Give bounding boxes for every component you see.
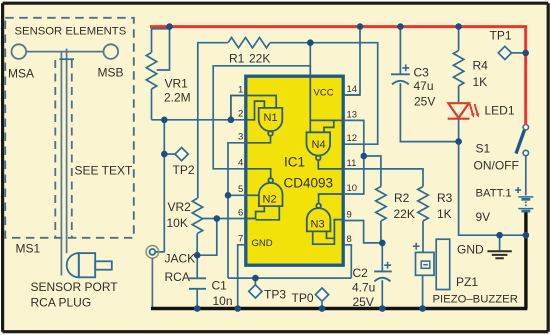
wire node bus horizontal (pin3-pin5-pin8) (228, 277, 351, 279)
switch S1 top contact (523, 125, 528, 130)
wire R4 to LED anode (458, 86, 460, 103)
wire N2 output to pin 4 (246, 169, 271, 178)
svg-text:MSB: MSB (98, 66, 124, 80)
wire pin2 input step to gate N1 (246, 101, 264, 120)
wire ground symbol stem (499, 235, 501, 250)
svg-text:2.2M: 2.2M (164, 91, 191, 105)
svg-text:RCA PLUG: RCA PLUG (31, 296, 92, 310)
resistor R1 zigzag (228, 38, 270, 48)
cable shield dashed line right (71, 60, 73, 238)
cable shield dashed line left (54, 60, 56, 238)
test point TP1 diamond (498, 46, 511, 59)
svg-text:TP1: TP1 (490, 29, 512, 43)
sensor elements dashed enclosure box (5, 18, 134, 238)
svg-text:7: 7 (238, 234, 243, 245)
junction dots (166, 23, 173, 30)
switch S1 bottom contact (523, 150, 528, 155)
wire MSA to MSB (26, 51, 103, 53)
resistor R3 zigzag (418, 187, 428, 222)
svg-text:GND: GND (457, 243, 484, 257)
svg-text:TP3: TP3 (264, 288, 286, 302)
wire pin8 bracket to node bus (344, 245, 351, 278)
svg-text:N4: N4 (312, 139, 326, 151)
svg-text:SENSOR ELEMENTS: SENSOR ELEMENTS (15, 26, 127, 38)
wire TP2 stub (164, 153, 175, 155)
svg-text:1K: 1K (473, 75, 488, 89)
switch S1 lever (516, 129, 525, 153)
svg-text:GND: GND (252, 238, 273, 249)
wire VR2 bottom lead (196, 233, 198, 278)
svg-text:SEE TEXT: SEE TEXT (75, 164, 133, 178)
svg-text:MSA: MSA (8, 67, 34, 81)
svg-text:4: 4 (238, 158, 243, 169)
wire R1 right lead to pin12 drop (270, 43, 378, 145)
svg-text:2: 2 (238, 109, 243, 120)
svg-text:4.7u: 4.7u (352, 281, 375, 295)
wire pin4 riser over the top (N2 output feedback) (213, 43, 310, 169)
battery BATT.1 plates (518, 196, 533, 198)
wire N4 output to pin 11 (318, 160, 344, 169)
svg-text:MS1: MS1 (16, 242, 41, 256)
svg-text:VR1: VR1 (165, 77, 189, 91)
wire TP1 stub (511, 52, 524, 54)
svg-text:ON/OFF: ON/OFF (474, 159, 519, 173)
test point TP0 diamond (315, 288, 328, 301)
capacitor C2 top plate (374, 270, 392, 272)
svg-text:9: 9 (347, 210, 352, 221)
test point TP2 diamond (175, 148, 188, 161)
svg-text:TP2: TP2 (173, 163, 195, 177)
svg-text:C3: C3 (414, 66, 430, 80)
wire C3 bottom lead to LED node (400, 83, 458, 141)
resistor R2 zigzag (376, 187, 386, 222)
wire pin13 to pin10 vertical with R2 tap (344, 120, 364, 194)
capacitor C3 bottom curved plate (392, 81, 409, 85)
svg-text:10: 10 (347, 183, 358, 194)
svg-text:R1: R1 (229, 52, 245, 66)
wire pin11 to R3 (344, 169, 423, 187)
piezo buzzer PZ1 element (436, 239, 450, 289)
svg-text:11: 11 (347, 158, 357, 169)
svg-text:SENSOR PORT: SENSOR PORT (31, 280, 119, 294)
wire N2 second input bracket (256, 206, 280, 220)
IC U1 CD4093 body (246, 76, 343, 265)
svg-text:6: 6 (238, 207, 243, 218)
op-amp gate N3 (NAND, output up) (307, 208, 331, 231)
potentiometer VR1 zigzag (146, 53, 156, 90)
svg-text:1K: 1K (437, 207, 452, 221)
wire C1 bottom lead to ground rail (196, 289, 198, 309)
wire jack tip riser / TP2 branch (155, 120, 164, 252)
wire VR1 wiper from rail junction (157, 27, 170, 70)
plus polarity mark battery (515, 187, 521, 193)
svg-text:10n: 10n (213, 294, 233, 308)
wire pin14 riser to supply rail (344, 28, 360, 95)
wire cable tie bar (59, 58, 74, 60)
wire pin1 input to gate N1 (231, 96, 276, 120)
svg-text:PZ1: PZ1 (456, 275, 478, 289)
svg-text:VCC: VCC (314, 87, 334, 98)
wire pin6 internal step to gate N2 (246, 206, 264, 218)
capacitor C2 bottom curved plate (374, 278, 390, 282)
svg-text:C2: C2 (353, 266, 369, 280)
wire N3 input bracket to pin 9 (313, 220, 344, 245)
wire TP3 stub (254, 278, 256, 285)
potentiometer VR2 zigzag (192, 198, 202, 233)
svg-text:25V: 25V (414, 95, 435, 109)
wire pin3 to pin5 and node bus (228, 143, 246, 278)
RCA plug MS1 connector (67, 253, 79, 277)
resistor R4 zigzag (453, 51, 463, 87)
svg-text:10K: 10K (167, 216, 188, 230)
wire VR1 top lead to supply rail (152, 29, 170, 53)
svg-text:C1: C1 (212, 279, 228, 293)
svg-text:47u: 47u (414, 79, 434, 93)
wire pin5 internal (246, 194, 259, 196)
plus polarity mark C3 (402, 65, 409, 72)
wire sensor lead B (right vertical) (66, 49, 68, 254)
op-amp gate N1 (NAND) (259, 108, 283, 131)
wire R1 left lead / VR2 top riser (198, 43, 228, 199)
svg-text:13: 13 (347, 109, 358, 120)
svg-text:R2: R2 (394, 191, 410, 205)
wire N4 left input drop from feedback (309, 66, 311, 133)
svg-text:RCA: RCA (165, 270, 190, 284)
wire R3 bottom lead to buzzer (422, 221, 424, 252)
svg-text:JACK: JACK (165, 252, 196, 266)
wire C2 top lead (381, 243, 383, 271)
wire sensor input node horizontal (152, 119, 247, 121)
wire R2 top jog from node (364, 156, 381, 187)
wire R2 bottom lead (380, 221, 382, 243)
jack J1 tip circle (150, 249, 156, 255)
LED LED1 triangle (448, 103, 469, 118)
wire N4 right input step (324, 120, 334, 132)
svg-text:22K: 22K (249, 52, 270, 66)
ground symbol (487, 251, 511, 258)
op-amp gate N4 (NAND) (307, 132, 331, 155)
wire ground node vertical and horizontal to battery (459, 142, 526, 236)
capacitor C3 top plate (391, 73, 410, 75)
sensor element MSB circle (104, 44, 119, 59)
wire C2 bottom lead to ground rail (381, 280, 383, 308)
capacitor C1 plates (189, 277, 206, 279)
svg-text:TP0: TP0 (292, 291, 314, 305)
svg-text:1: 1 (238, 84, 243, 95)
wire pin9 to R2/C2 node (344, 221, 382, 243)
wire buzzer to ground rail (422, 275, 424, 308)
svg-text:N2: N2 (263, 194, 277, 206)
LED LED1 light arrows (470, 104, 478, 115)
wire switch to battery positive (525, 156, 527, 196)
svg-text:N1: N1 (264, 112, 278, 124)
wire R4 top lead from rail (458, 27, 460, 51)
supply rail VCC (red) (150, 27, 526, 125)
plus polarity mark C2 (384, 262, 391, 269)
wire N1 output to pin 3 (246, 136, 271, 143)
svg-text:3: 3 (238, 132, 243, 143)
svg-text:R4: R4 (473, 59, 489, 73)
wire N3 second input step (327, 231, 335, 238)
svg-text:IC1: IC1 (284, 155, 305, 170)
test point TP3 diamond (249, 285, 262, 298)
svg-text:N3: N3 (311, 219, 325, 231)
wire pin13 internal (310, 119, 344, 121)
svg-text:8: 8 (347, 234, 352, 245)
ground rail (black) (151, 307, 527, 310)
svg-text:LED1: LED1 (485, 104, 515, 118)
svg-text:22K: 22K (394, 207, 415, 221)
sensor element MSA circle (11, 44, 26, 59)
plus polarity mark PZ1 (413, 243, 420, 250)
svg-text:VR2: VR2 (168, 200, 192, 214)
wire pin7 to ground rail (238, 245, 246, 309)
wire jack sleeve to ground rail (151, 258, 153, 308)
LED LED1 cathode bar (448, 118, 470, 120)
wire TP0 stub (321, 301, 323, 308)
jack J1 RCA socket outer ring (146, 246, 159, 259)
wire battery negative to ground rail (black) (524, 212, 527, 308)
svg-text:R3: R3 (437, 191, 453, 205)
wire VR2 wiper return loop (197, 219, 217, 256)
wire C3 top lead from rail (399, 27, 401, 75)
svg-text:S1: S1 (476, 142, 491, 156)
op-amp gate N2 (NAND, output up) (259, 183, 283, 206)
svg-text:9V: 9V (476, 210, 491, 224)
svg-text:14: 14 (347, 84, 358, 95)
piezo buzzer PZ1 terminal block (416, 252, 435, 275)
svg-text:BATT.1: BATT.1 (476, 188, 512, 200)
wire VR2 wiper to pin 6 (203, 218, 246, 220)
wire LED cathode to ground node (458, 119, 460, 142)
wire pin5 stub (228, 194, 246, 196)
svg-text:5: 5 (238, 184, 243, 195)
wire N3 output to pin 10 (319, 194, 344, 204)
svg-text:12: 12 (347, 133, 358, 144)
svg-text:CD4093: CD4093 (284, 176, 334, 191)
svg-text:PIEZO–BUZZER: PIEZO–BUZZER (433, 294, 518, 306)
wire sensor lead A (left vertical) (60, 52, 62, 276)
wire VR1 bottom lead (151, 89, 153, 120)
battery dotted middle (525, 201, 527, 203)
